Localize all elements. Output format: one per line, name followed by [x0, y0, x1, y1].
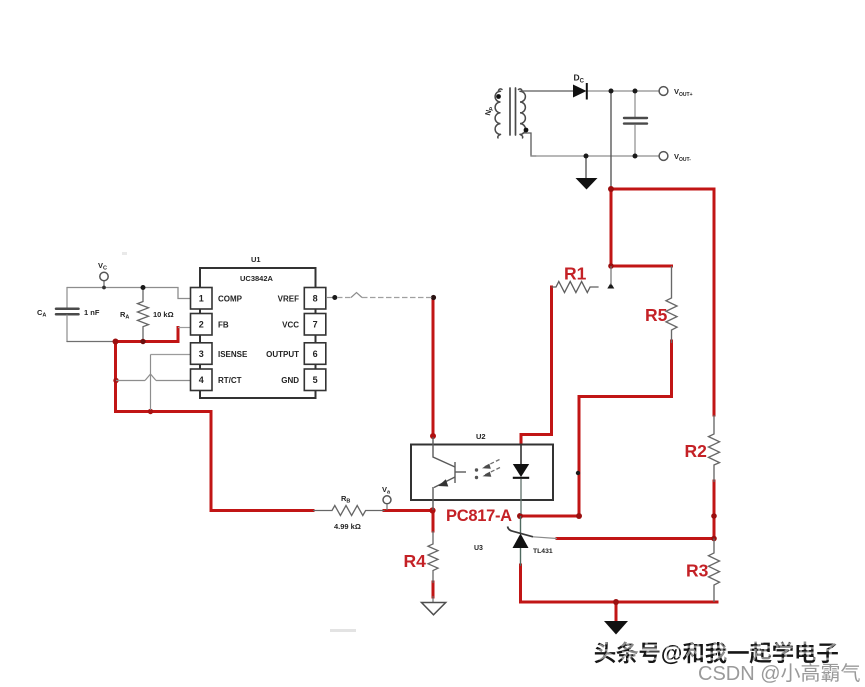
svg-text:4.99 kΩ: 4.99 kΩ	[334, 522, 361, 531]
svg-text:RT/CT: RT/CT	[218, 376, 242, 385]
svg-text:1: 1	[199, 294, 204, 304]
svg-text:ISENSE: ISENSE	[218, 350, 248, 359]
svg-text:R2: R2	[685, 441, 708, 461]
svg-text:TL431: TL431	[533, 548, 553, 555]
svg-text:R4: R4	[404, 551, 427, 571]
svg-text:R1: R1	[564, 264, 587, 284]
svg-text:7: 7	[313, 320, 318, 330]
svg-text:VC: VC	[98, 261, 107, 272]
svg-text:3: 3	[199, 349, 204, 359]
svg-text:Va: Va	[382, 485, 391, 496]
svg-text:CSDN @小高霸气: CSDN @小高霸气	[698, 662, 861, 685]
svg-text:VOUT-: VOUT-	[674, 152, 691, 163]
svg-text:U2: U2	[476, 432, 486, 441]
svg-text:2: 2	[199, 320, 204, 330]
svg-text:8: 8	[313, 294, 318, 304]
svg-text:FB: FB	[218, 321, 229, 330]
svg-text:NP: NP	[483, 105, 495, 117]
svg-text:CA: CA	[37, 308, 46, 319]
svg-text:RB: RB	[341, 494, 350, 505]
svg-text:PC817-A: PC817-A	[446, 507, 512, 525]
svg-text:5: 5	[313, 375, 318, 385]
svg-text:RA: RA	[120, 310, 129, 321]
svg-text:VOUT+: VOUT+	[674, 87, 693, 98]
svg-text:U1: U1	[251, 255, 261, 264]
svg-text:1 nF: 1 nF	[84, 308, 100, 317]
svg-text:R3: R3	[686, 561, 709, 581]
svg-text:U3: U3	[474, 545, 483, 552]
svg-text:10 kΩ: 10 kΩ	[153, 310, 174, 319]
svg-text:GND: GND	[281, 376, 299, 385]
svg-text:6: 6	[313, 349, 318, 359]
svg-text:DC: DC	[574, 73, 585, 85]
svg-text:UC3842A: UC3842A	[240, 274, 274, 283]
svg-text:COMP: COMP	[218, 295, 243, 304]
svg-text:VCC: VCC	[282, 321, 299, 330]
svg-text:4: 4	[199, 375, 204, 385]
svg-text:VREF: VREF	[278, 295, 299, 304]
svg-text:头条号@和我一起学电子: 头条号@和我一起学电子	[597, 638, 842, 663]
svg-text:R5: R5	[645, 305, 668, 325]
svg-text:OUTPUT: OUTPUT	[266, 350, 299, 359]
